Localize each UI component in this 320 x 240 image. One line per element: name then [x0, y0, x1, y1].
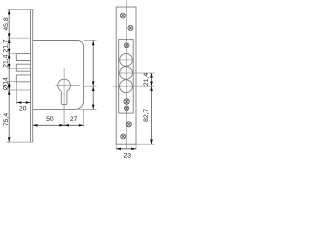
arrow 21.4r bottom: [150, 81, 153, 86]
arrow 21.4 bottom: [8, 64, 11, 69]
screw 5: [124, 106, 128, 110]
circle2 centerline / 21.4 extension: [119, 72, 155, 74]
arrow 82.7 bottom: [150, 139, 153, 144]
extension line plate top: [8, 9, 34, 11]
arrow 75.4 top: [8, 90, 11, 95]
svg-text:50: 50: [46, 116, 54, 123]
arrow d14 top: [8, 82, 11, 87]
arrow 45.8 bottom: [8, 33, 11, 38]
svg-text:75,4: 75,4: [3, 113, 10, 126]
svg-text:82,7: 82,7: [143, 108, 150, 121]
screw 3: [124, 43, 129, 48]
right dimension line 21.4/82.7: [151, 73, 153, 144]
extension line notch3 bottom: [8, 81, 17, 83]
arrow 23 left: [116, 148, 121, 151]
cylinder vertical centerline: [63, 68, 65, 126]
arrow 27 right: [79, 124, 84, 127]
arrow 21.7 bottom: [8, 49, 11, 54]
euro cylinder profile: [58, 79, 71, 104]
screw 2: [128, 25, 133, 30]
svg-text:23: 23: [124, 153, 132, 160]
arrow d14 bottom: [8, 85, 11, 90]
arrow 21.7 top: [8, 38, 11, 43]
right view centerline: [126, 1, 128, 150]
extension line y68.7: [8, 68, 31, 70]
faceplate side view: [31, 10, 33, 143]
body top edge extension: [84, 40, 97, 42]
screw 1: [120, 13, 125, 18]
inner case window: [119, 40, 134, 114]
arrow 21.4r top: [150, 73, 153, 78]
body bottom edge extension: [75, 108, 96, 110]
extension line plate bottom: [7, 141, 34, 143]
arrow 21.4 top: [8, 54, 11, 59]
notch 1: [16, 54, 30, 61]
cylinder horizontal centerline: [56, 85, 81, 87]
circle1 centerline: [120, 59, 134, 61]
svg-text:27: 27: [70, 116, 78, 123]
front plate outline: [116, 7, 136, 144]
screw 4: [124, 99, 129, 104]
arrow body bottom: [92, 105, 95, 110]
20 dimension line: [17, 102, 31, 104]
arrow 20 left: [17, 101, 22, 104]
right-of-body dimension line: [92, 41, 94, 110]
arrow 50 left: [33, 124, 38, 127]
arrow 20 right: [26, 101, 31, 104]
arrow 75.4 bottom: [8, 137, 11, 142]
arrow 45.8 top: [8, 10, 11, 15]
arrow 50 right / 27 left: [59, 124, 64, 127]
left dimension line column: [8, 10, 10, 143]
extension line notch1 top: [8, 53, 17, 55]
cross-view horizontal centerline: [84, 85, 155, 87]
lock body outline: [33, 41, 84, 110]
23 extension lines: [116, 144, 136, 149]
20 extension line: [16, 82, 18, 104]
extension line y90: [8, 89, 31, 91]
svg-text:21,4: 21,4: [3, 54, 10, 67]
screw 7: [121, 134, 126, 139]
23 dimension line: [116, 148, 136, 150]
arrow 82.7 top: [150, 86, 153, 91]
extension line y38: [8, 37, 31, 39]
big circle 3: [120, 80, 133, 93]
extension cylinder centerline down: [63, 105, 65, 127]
svg-text:Ø14: Ø14: [3, 77, 10, 90]
svg-text:21,7: 21,7: [3, 39, 10, 52]
extension body right edge down: [83, 109, 85, 126]
arrow 23 right: [131, 148, 136, 151]
big circle 2: [120, 67, 133, 80]
arrow body top: [92, 41, 95, 46]
svg-text:21,4: 21,4: [143, 73, 150, 86]
bottom dimension line 50/27: [33, 124, 84, 126]
svg-text:20: 20: [19, 106, 27, 113]
plate bottom extension right: [136, 143, 155, 145]
notch 2: [16, 64, 30, 71]
svg-text:45,8: 45,8: [3, 17, 10, 30]
notch 3: [16, 75, 30, 82]
screw 6: [126, 122, 131, 127]
big circle 1: [120, 54, 133, 67]
arrow center up pair: [92, 81, 95, 86]
